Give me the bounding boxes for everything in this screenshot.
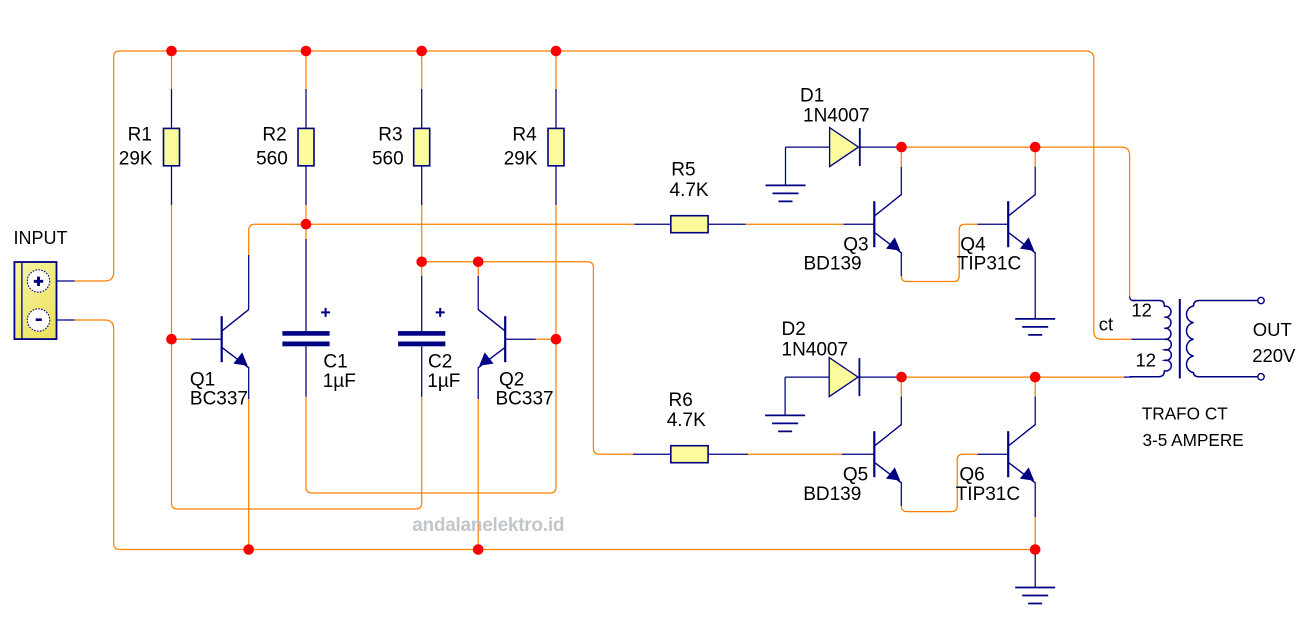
svg-text:andalanelektro.id: andalanelektro.id	[412, 515, 564, 536]
svg-text:12: 12	[1131, 300, 1152, 321]
svg-text:OUT: OUT	[1253, 319, 1292, 340]
svg-text:D1: D1	[800, 86, 824, 107]
svg-text:TIP31C: TIP31C	[956, 484, 1020, 505]
svg-text:TRAFO CT: TRAFO CT	[1142, 403, 1228, 423]
svg-text:3-5 AMPERE: 3-5 AMPERE	[1143, 430, 1244, 450]
svg-text:Q2: Q2	[499, 369, 524, 390]
svg-text:29K: 29K	[119, 149, 153, 170]
svg-text:Q6: Q6	[959, 465, 984, 486]
svg-text:BD139: BD139	[804, 254, 862, 275]
svg-text:ct: ct	[1099, 313, 1113, 334]
svg-text:INPUT: INPUT	[14, 228, 68, 248]
svg-text:BC337: BC337	[496, 388, 554, 409]
svg-text:Q5: Q5	[843, 465, 868, 486]
svg-text:4.7K: 4.7K	[667, 410, 706, 431]
svg-text:1N4007: 1N4007	[803, 106, 870, 127]
svg-text:1N4007: 1N4007	[782, 340, 849, 361]
svg-text:R1: R1	[128, 125, 152, 146]
svg-text:BC337: BC337	[190, 388, 248, 409]
svg-text:R4: R4	[512, 125, 537, 146]
svg-text:220V: 220V	[1252, 345, 1296, 366]
svg-text:C2: C2	[428, 352, 452, 373]
svg-text:R6: R6	[669, 390, 693, 411]
svg-text:560: 560	[372, 149, 404, 170]
svg-text:C1: C1	[323, 352, 347, 373]
svg-text:TIP31C: TIP31C	[957, 254, 1021, 275]
svg-text:560: 560	[256, 149, 288, 170]
svg-text:1µF: 1µF	[427, 371, 460, 392]
svg-text:R2: R2	[262, 125, 286, 146]
svg-text:R3: R3	[378, 125, 402, 146]
svg-text:12: 12	[1136, 349, 1157, 370]
svg-text:Q1: Q1	[190, 369, 215, 390]
svg-text:1µF: 1µF	[323, 371, 356, 392]
svg-text:BD139: BD139	[803, 484, 861, 505]
svg-text:R5: R5	[671, 160, 695, 181]
svg-text:4.7K: 4.7K	[670, 180, 709, 201]
svg-text:Q3: Q3	[843, 235, 868, 256]
svg-text:D2: D2	[782, 319, 806, 340]
svg-text:Q4: Q4	[960, 235, 986, 256]
svg-text:29K: 29K	[504, 149, 538, 170]
